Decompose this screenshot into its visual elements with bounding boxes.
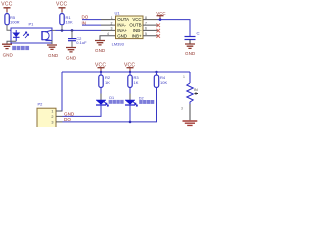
power VCC2 <box>59 8 66 14</box>
svg-text:7: 7 <box>145 21 147 25</box>
svg-text:R2: R2 <box>105 75 111 80</box>
svg-text:C1: C1 <box>197 31 201 36</box>
wire opto LED cathode to ground <box>7 41 16 43</box>
U1 pin4 wire to ground <box>100 36 116 40</box>
ground G3 <box>66 48 76 52</box>
wire net DO to U1 pin1 <box>82 19 101 21</box>
wire opto collector to U1 pin3 <box>52 29 56 31</box>
wire opto emitter to ground <box>46 40 53 42</box>
ground G2 <box>47 45 57 49</box>
junction R3 top <box>129 71 131 73</box>
ground G5 <box>185 44 195 48</box>
junction at R1 bottom <box>61 29 64 32</box>
CJK label dianyuan zhishi <box>109 100 124 104</box>
C1 lead to ground <box>189 40 191 44</box>
svg-text:R3: R3 <box>134 75 140 80</box>
svg-text:D2: D2 <box>139 96 144 100</box>
svg-text:LM393: LM393 <box>112 41 125 46</box>
optocoupler P1 box <box>11 28 52 43</box>
capacitor C1 <box>185 37 196 40</box>
svg-text:VCC: VCC <box>132 17 141 22</box>
U1 pin stubs left <box>101 20 116 31</box>
resistor R3 <box>128 72 132 88</box>
ground G1 <box>2 44 12 48</box>
svg-text:1: 1 <box>51 110 53 114</box>
no-connect X pin7 <box>156 24 160 28</box>
svg-text:1: 1 <box>183 75 185 79</box>
potentiometer R6 <box>187 72 193 104</box>
ground G4 <box>95 41 105 45</box>
svg-text:1: 1 <box>111 16 113 20</box>
resistor R1 <box>60 14 64 25</box>
svg-text:IN: IN <box>194 88 198 92</box>
LED D2 <box>125 88 135 106</box>
svg-text:VCC: VCC <box>95 63 106 69</box>
wire R5 to opto LED <box>7 25 10 30</box>
resistor R2 <box>99 72 103 88</box>
wire R1 bottom <box>61 25 63 30</box>
power VCC3 <box>157 16 164 20</box>
ground G6 <box>183 121 198 125</box>
U1 pin names <box>117 17 142 38</box>
no-connect X pin5 <box>156 34 160 38</box>
no-connect X pin6 <box>156 29 160 33</box>
junction D2 bottom <box>129 121 132 124</box>
junction VCC3 <box>159 18 162 21</box>
opto LED <box>13 30 20 41</box>
capacitor C2 <box>68 30 76 47</box>
D1 emission arrows <box>104 102 108 107</box>
svg-text:VCC: VCC <box>56 1 68 7</box>
opto phototransistor <box>42 30 52 40</box>
U1 pin numbers right <box>145 16 147 36</box>
pot lead to ground <box>189 104 191 120</box>
CJK label hongwai duiguan <box>12 46 29 50</box>
svg-text:IN: IN <box>82 20 87 25</box>
svg-text:4: 4 <box>107 32 109 36</box>
CJK label kaiguan zhishi <box>139 100 154 104</box>
svg-text:DO: DO <box>64 117 71 122</box>
svg-text:GND: GND <box>48 53 59 58</box>
svg-text:D1: D1 <box>109 96 114 100</box>
svg-text:GND: GND <box>64 112 75 117</box>
svg-text:VCC: VCC <box>156 11 165 16</box>
resistor R5 <box>5 14 9 25</box>
svg-text:10K: 10K <box>160 80 167 85</box>
svg-text:GND: GND <box>95 48 106 53</box>
svg-text:1K: 1K <box>134 80 139 85</box>
wire GND net connector pin2 to D1 <box>63 105 102 116</box>
junction at C2 top <box>71 29 74 32</box>
U1 pin stubs right <box>143 20 158 36</box>
svg-text:OUTB: OUTB <box>129 23 141 28</box>
svg-text:INA-: INA- <box>117 23 126 28</box>
wire U1 pin8 to VCC and C1 <box>158 20 191 36</box>
svg-text:GND: GND <box>66 56 77 61</box>
IR emission lightning <box>23 32 28 38</box>
wire vertical to connector pin1 <box>61 72 63 111</box>
svg-text:1K: 1K <box>105 80 110 85</box>
svg-text:100R: 100R <box>10 20 20 25</box>
svg-text:INA+: INA+ <box>117 28 127 33</box>
op-amp U1 body <box>116 16 144 39</box>
svg-text:0.1uF: 0.1uF <box>76 40 87 45</box>
power VCC5 <box>127 68 134 72</box>
wire VCC rail bottom section <box>62 71 190 73</box>
P2 pin numbers <box>51 110 53 125</box>
svg-text:3: 3 <box>111 27 113 31</box>
svg-text:5: 5 <box>145 32 147 36</box>
svg-text:GND: GND <box>185 51 196 56</box>
potentiometer wiper arrow <box>195 93 199 95</box>
svg-text:2: 2 <box>51 115 53 119</box>
connector P2 body <box>37 108 56 128</box>
svg-text:DO: DO <box>82 14 89 19</box>
svg-text:VCC: VCC <box>124 63 135 69</box>
svg-text:GND: GND <box>117 33 127 38</box>
junction R2 top <box>100 71 102 73</box>
U1 pin numbers left <box>107 16 113 36</box>
svg-text:P2: P2 <box>38 102 44 107</box>
wire DO net connector pin3 to D2 and R4 <box>63 88 157 122</box>
svg-text:8: 8 <box>145 16 147 20</box>
svg-text:INB+: INB+ <box>132 33 142 38</box>
P2 pin stubs <box>56 111 63 122</box>
svg-text:3: 3 <box>51 121 53 125</box>
junction R4 top <box>155 71 157 73</box>
wire net IN to U1 pin2 <box>82 24 101 26</box>
resistor R4 <box>154 72 158 88</box>
svg-text:6: 6 <box>145 27 147 31</box>
svg-text:10K: 10K <box>66 20 73 25</box>
power VCC1 top-left <box>4 8 11 14</box>
svg-text:OUTA: OUTA <box>117 17 129 22</box>
svg-text:P1: P1 <box>29 21 35 26</box>
svg-text:R4: R4 <box>160 75 166 80</box>
svg-text:U1: U1 <box>115 11 121 16</box>
svg-text:2: 2 <box>111 21 113 25</box>
LED D1 <box>96 88 106 106</box>
svg-text:INB-: INB- <box>133 28 142 33</box>
svg-text:VCC: VCC <box>1 1 13 7</box>
svg-text:GND: GND <box>3 52 14 57</box>
power VCC4 <box>98 68 105 72</box>
svg-text:3: 3 <box>181 107 183 111</box>
D2 emission arrows <box>133 102 137 107</box>
